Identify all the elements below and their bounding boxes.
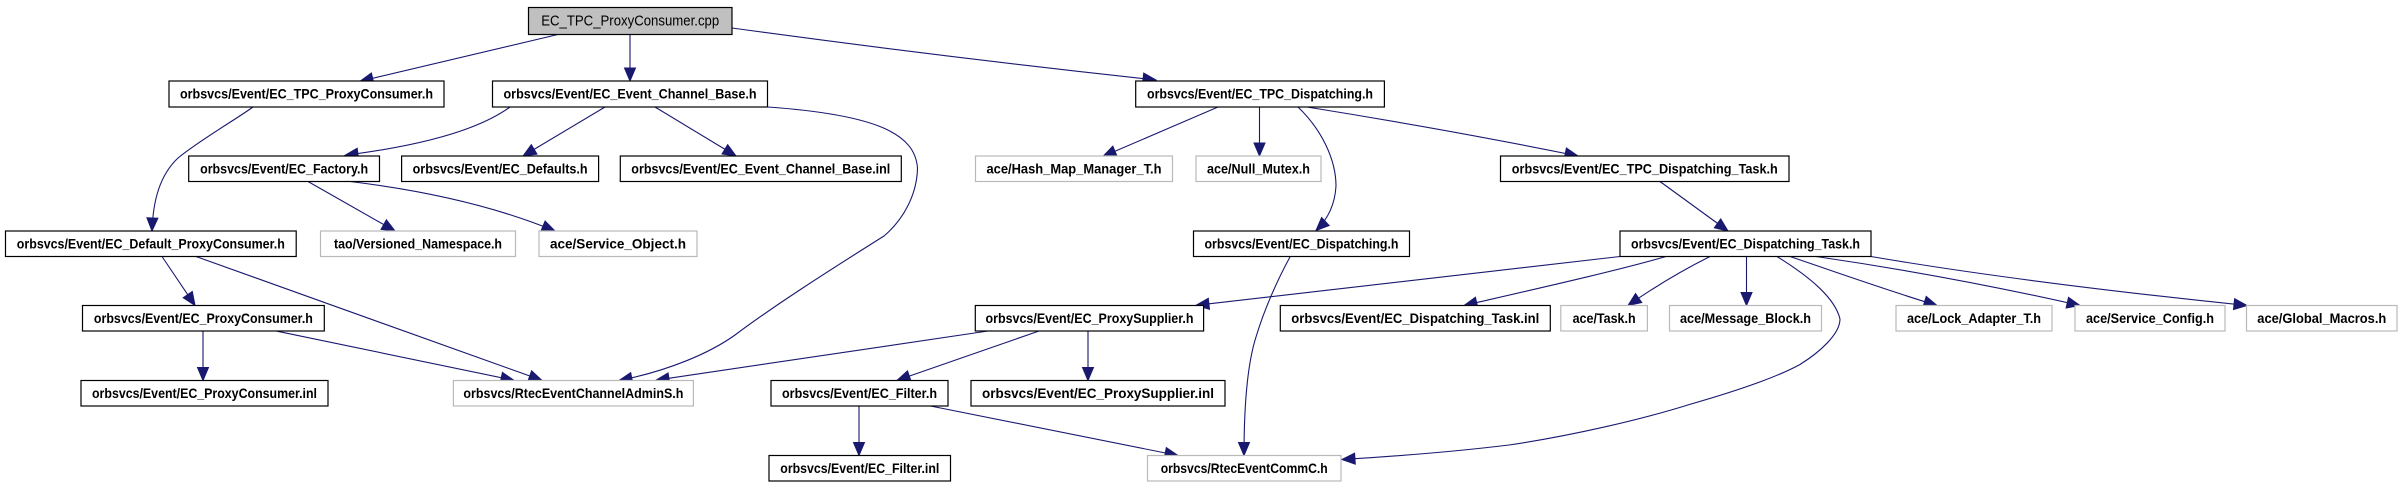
svg-text:ace/Hash_Map_Manager_T.h: ace/Hash_Map_Manager_T.h [987,160,1162,176]
svg-text:orbsvcs/Event/EC_ProxySupplier: orbsvcs/Event/EC_ProxySupplier.inl [982,385,1214,401]
svg-text:EC_TPC_ProxyConsumer.cpp: EC_TPC_ProxyConsumer.cpp [541,14,719,30]
svg-text:orbsvcs/Event/EC_TPC_Dispatchi: orbsvcs/Event/EC_TPC_Dispatching_Task.h [1512,160,1778,176]
svg-text:ace/Lock_Adapter_T.h: ace/Lock_Adapter_T.h [1907,310,2041,326]
svg-text:orbsvcs/Event/EC_Factory.h: orbsvcs/Event/EC_Factory.h [200,160,368,176]
svg-text:tao/Versioned_Namespace.h: tao/Versioned_Namespace.h [334,235,502,251]
svg-text:orbsvcs/Event/EC_TPC_ProxyCons: orbsvcs/Event/EC_TPC_ProxyConsumer.h [180,86,433,102]
svg-text:orbsvcs/Event/EC_Event_Channel: orbsvcs/Event/EC_Event_Channel_Base.h [504,86,757,102]
svg-text:orbsvcs/Event/EC_Dispatching_T: orbsvcs/Event/EC_Dispatching_Task.h [1631,235,1860,251]
svg-text:orbsvcs/Event/EC_Default_Proxy: orbsvcs/Event/EC_Default_ProxyConsumer.h [17,235,285,251]
svg-text:orbsvcs/Event/EC_ProxyConsumer: orbsvcs/Event/EC_ProxyConsumer.inl [92,385,317,401]
svg-text:orbsvcs/Event/EC_Dispatching_T: orbsvcs/Event/EC_Dispatching_Task.inl [1291,310,1539,326]
svg-text:ace/Message_Block.h: ace/Message_Block.h [1680,310,1811,326]
svg-text:orbsvcs/Event/EC_Filter.h: orbsvcs/Event/EC_Filter.h [782,385,937,401]
svg-text:orbsvcs/RtecEventChannelAdminS: orbsvcs/RtecEventChannelAdminS.h [463,385,683,401]
svg-text:ace/Global_Macros.h: ace/Global_Macros.h [2257,310,2386,326]
svg-text:orbsvcs/Event/EC_ProxySupplier: orbsvcs/Event/EC_ProxySupplier.h [986,310,1194,326]
svg-text:ace/Service_Config.h: ace/Service_Config.h [2086,310,2214,326]
svg-text:orbsvcs/Event/EC_Filter.inl: orbsvcs/Event/EC_Filter.inl [780,460,939,476]
svg-text:orbsvcs/RtecEventCommC.h: orbsvcs/RtecEventCommC.h [1161,460,1328,476]
svg-text:orbsvcs/Event/EC_Defaults.h: orbsvcs/Event/EC_Defaults.h [413,160,588,176]
svg-text:orbsvcs/Event/EC_ProxyConsumer: orbsvcs/Event/EC_ProxyConsumer.h [94,310,313,326]
svg-text:orbsvcs/Event/EC_TPC_Dispatchi: orbsvcs/Event/EC_TPC_Dispatching.h [1147,86,1373,102]
svg-text:orbsvcs/Event/EC_Dispatching.h: orbsvcs/Event/EC_Dispatching.h [1205,235,1399,251]
svg-text:ace/Task.h: ace/Task.h [1573,310,1636,326]
svg-text:ace/Service_Object.h: ace/Service_Object.h [550,235,686,251]
svg-text:orbsvcs/Event/EC_Event_Channel: orbsvcs/Event/EC_Event_Channel_Base.inl [631,160,890,176]
svg-text:ace/Null_Mutex.h: ace/Null_Mutex.h [1207,160,1310,176]
